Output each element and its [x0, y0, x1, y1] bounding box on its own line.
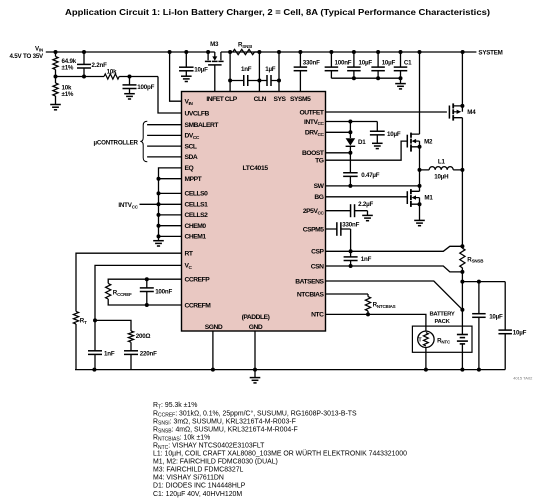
svg-text:M3: FAIRCHILD FDMC8327L: M3: FAIRCHILD FDMC8327L: [153, 467, 244, 474]
svg-text:CSPM5: CSPM5: [303, 226, 325, 233]
svg-text:SMBALERT: SMBALERT: [185, 122, 220, 129]
svg-text:1µF: 1µF: [265, 66, 276, 73]
svg-text:µCONTROLLER: µCONTROLLER: [93, 139, 138, 146]
svg-text:LTC4015: LTC4015: [243, 165, 269, 172]
svg-text:SYSM5: SYSM5: [290, 96, 311, 103]
svg-text:OUTFET: OUTFET: [299, 109, 324, 116]
svg-text:4015 TA02: 4015 TA02: [513, 375, 533, 380]
svg-text:10µF: 10µF: [359, 59, 373, 66]
svg-text:SYS: SYS: [273, 96, 286, 103]
svg-text:10µF: 10µF: [194, 67, 208, 74]
svg-text:0.47µF: 0.47µF: [361, 172, 380, 179]
svg-text:CSP: CSP: [311, 249, 324, 256]
svg-text:SGND: SGND: [205, 324, 223, 331]
svg-text:RCCREF​: 301kΩ, 0.1%, 25ppm/C°: RCCREF​: 301kΩ, 0.1%, 25ppm/C°, SUSUMU, …: [153, 409, 357, 418]
svg-text:RT​: RT​: [80, 318, 87, 325]
svg-text:GND: GND: [249, 324, 263, 331]
svg-text:NTCBIAS: NTCBIAS: [297, 291, 325, 298]
svg-text:CELLS1: CELLS1: [185, 202, 209, 209]
svg-text:100nF: 100nF: [335, 59, 352, 66]
svg-text:M3: M3: [210, 41, 219, 48]
svg-text:CLN: CLN: [254, 96, 267, 103]
svg-text:200Ω: 200Ω: [136, 333, 151, 340]
svg-text:CLP: CLP: [225, 96, 238, 103]
svg-text:CELLS2: CELLS2: [185, 212, 209, 219]
svg-text:2.2µF: 2.2µF: [358, 201, 373, 208]
svg-text:100pF: 100pF: [137, 84, 154, 91]
svg-text:D1: D1: [358, 139, 366, 146]
svg-text:1nF: 1nF: [361, 256, 372, 263]
svg-text:EQ: EQ: [185, 165, 194, 172]
svg-text:1nF: 1nF: [104, 351, 115, 358]
svg-text:L1: L1: [438, 159, 446, 166]
svg-text:±1%: ±1%: [62, 64, 74, 71]
svg-text:M4: M4: [467, 109, 476, 116]
svg-text:CCREFM: CCREFM: [185, 302, 212, 309]
svg-text:CSN: CSN: [311, 263, 324, 270]
svg-text:CHEM1: CHEM1: [185, 234, 207, 241]
svg-text:NTC: NTC: [311, 312, 324, 319]
svg-text:±1%: ±1%: [62, 91, 74, 98]
svg-text:CHEM0: CHEM0: [185, 223, 207, 230]
svg-text:Application Circuit 1: Li-Ion: Application Circuit 1: Li-Ion Battery Ch…: [65, 8, 490, 17]
svg-text:CELLS0: CELLS0: [185, 191, 209, 198]
svg-text:10k: 10k: [107, 68, 117, 75]
svg-text:SW: SW: [314, 183, 325, 190]
svg-text:M2: M2: [424, 138, 433, 145]
svg-text:RT: RT: [185, 251, 194, 258]
svg-text:220nF: 220nF: [140, 351, 157, 358]
svg-text:M1, M2: FAIRCHILD FDMC8030 (DU: M1, M2: FAIRCHILD FDMC8030 (DUAL): [153, 459, 278, 466]
svg-text:SDA: SDA: [185, 154, 198, 161]
svg-text:SCL: SCL: [185, 143, 197, 150]
svg-text:C1: C1: [404, 59, 412, 66]
svg-text:10µF: 10µF: [382, 59, 396, 66]
svg-text:C1: 120µF 40V, 40HVH120M: C1: 120µF 40V, 40HVH120M: [153, 491, 242, 498]
svg-text:2.2nF: 2.2nF: [92, 62, 108, 69]
svg-text:INFET: INFET: [206, 96, 224, 103]
svg-text:330nF: 330nF: [342, 222, 359, 229]
svg-text:BATTERY: BATTERY: [429, 312, 454, 318]
svg-text:BG: BG: [314, 194, 323, 201]
svg-text:10µF: 10µF: [387, 131, 401, 138]
svg-text:10µF: 10µF: [513, 329, 527, 336]
svg-text:4.5V TO 35V: 4.5V TO 35V: [10, 53, 45, 60]
svg-text:D1: DIODES INC 1N4448HLP: D1: DIODES INC 1N4448HLP: [153, 483, 246, 490]
svg-text:(PADDLE): (PADDLE): [242, 314, 270, 321]
svg-text:SYSTEM: SYSTEM: [478, 49, 502, 56]
svg-text:MPPT: MPPT: [185, 176, 203, 183]
svg-text:10µH: 10µH: [434, 173, 449, 180]
svg-text:CCREFP: CCREFP: [185, 277, 211, 284]
svg-text:BOOST: BOOST: [302, 150, 325, 157]
svg-text:PACK: PACK: [434, 319, 450, 325]
svg-text:M4: VISHAY Si7611DN: M4: VISHAY Si7611DN: [153, 475, 224, 482]
svg-text:10µF: 10µF: [489, 313, 503, 320]
svg-text:330nF: 330nF: [303, 59, 320, 66]
svg-text:UVCLFB: UVCLFB: [185, 110, 210, 117]
svg-text:M1: M1: [424, 195, 433, 202]
svg-text:100nF: 100nF: [155, 289, 172, 296]
svg-text:BATSENS: BATSENS: [295, 278, 324, 285]
svg-text:TG: TG: [315, 158, 324, 165]
svg-text:1nF: 1nF: [241, 66, 252, 73]
svg-text:L1: 10µH, COIL CRAFT XAL8080_1: L1: 10µH, COIL CRAFT XAL8080_103ME OR WÜ…: [153, 450, 407, 458]
